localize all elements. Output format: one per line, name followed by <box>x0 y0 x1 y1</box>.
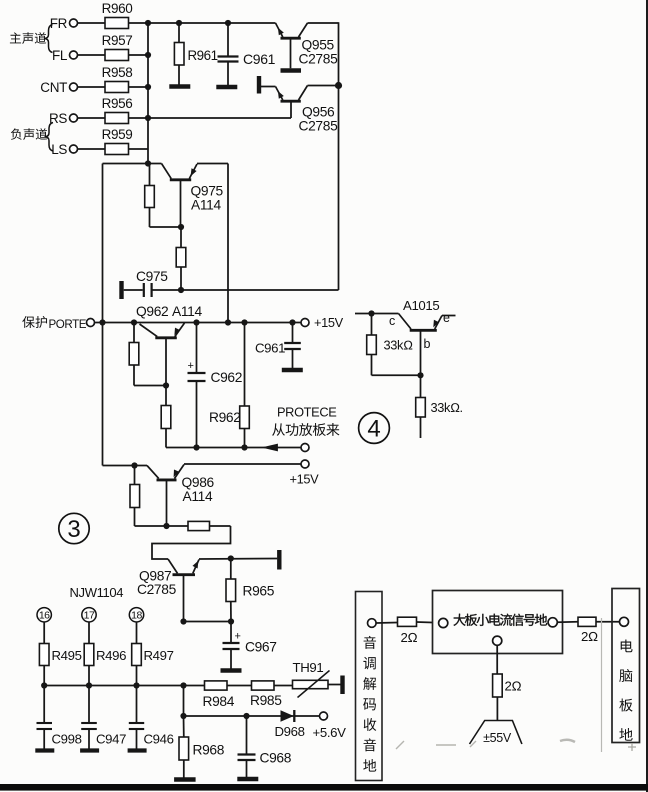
wire bottom bus <box>44 685 204 687</box>
thermistor TH91 <box>293 660 330 698</box>
svg-text:R968: R968 <box>193 743 225 758</box>
resistor R957 <box>102 33 133 61</box>
node Q962 base <box>163 382 169 388</box>
label negative channel 负声道 <box>11 128 47 140</box>
scan smudge marks <box>396 618 636 752</box>
wire Q987base down <box>183 686 185 717</box>
svg-text:PORTE: PORTE <box>49 318 87 331</box>
label A1015 <box>403 298 439 313</box>
svg-text:±55V: ±55V <box>483 731 512 745</box>
label 电脑板地 <box>619 640 632 741</box>
transistor Q987 <box>137 559 199 597</box>
svg-text:2Ω: 2Ω <box>401 630 418 645</box>
svg-text:33kΩ.: 33kΩ. <box>431 400 463 415</box>
node R496 bottom <box>86 682 92 688</box>
node CNT-bus <box>145 84 151 90</box>
emitter stub bar Q987 <box>277 550 281 570</box>
top rail wire <box>148 22 339 24</box>
svg-text:D968: D968 <box>275 724 305 739</box>
terminal +15V <box>301 315 344 330</box>
terminal +15V lower <box>290 460 320 487</box>
svg-text:Q956: Q956 <box>302 105 335 120</box>
svg-text:Q962: Q962 <box>136 304 168 319</box>
ground R968 <box>174 777 196 781</box>
node Q987 base lower <box>180 618 186 624</box>
node left rail <box>99 319 105 325</box>
svg-text:R958: R958 <box>102 65 133 80</box>
wire Q986 base lead <box>166 480 168 526</box>
circled 4 <box>359 413 390 444</box>
node R962 top <box>241 319 247 325</box>
svg-text:R497: R497 <box>144 648 174 663</box>
box tone-decoder ground <box>356 592 383 781</box>
ground R961 <box>169 84 190 88</box>
svg-text:R495: R495 <box>52 648 82 663</box>
svg-text:16: 16 <box>39 610 50 622</box>
svg-text:2Ω: 2Ω <box>505 679 522 694</box>
node Q975 base <box>178 224 184 230</box>
svg-text:A114: A114 <box>172 304 202 319</box>
input terminal LS <box>51 142 105 157</box>
capacitor C968 <box>238 716 292 777</box>
resistor 33k lower <box>416 375 463 438</box>
svg-text:b: b <box>424 337 431 351</box>
terminal PORTE <box>87 319 95 327</box>
node R962 bottom <box>241 444 247 450</box>
wire base to C967 <box>184 621 232 623</box>
svg-text:C2785: C2785 <box>299 52 339 67</box>
svg-text:C967: C967 <box>245 640 277 655</box>
resistor R496 <box>84 622 126 686</box>
svg-text:NJW1104: NJW1104 <box>70 585 124 600</box>
svg-text:+: + <box>234 631 240 643</box>
wire +15V rail <box>95 322 302 324</box>
page bottom bar <box>0 784 648 791</box>
node Q956 collector <box>335 82 342 89</box>
label 音调解码收音地 <box>363 636 376 772</box>
wire PROTECE row <box>166 447 301 449</box>
wire FR to bus <box>129 22 149 24</box>
label 大板小电流信号地 <box>453 614 547 626</box>
left rail wire upper <box>102 164 104 323</box>
wire R985-TH91 <box>274 685 293 687</box>
svg-text:C975: C975 <box>136 269 168 284</box>
node C961 lower top <box>289 319 295 325</box>
wire C975 to right rail <box>181 289 339 291</box>
wire A1015 stub <box>355 313 399 315</box>
node bus-Q987base <box>180 682 186 688</box>
transistor Q956 <box>261 86 339 134</box>
input bus wire <box>147 23 149 164</box>
box main board signal ground <box>433 591 563 654</box>
wire A1015 base lead <box>420 330 422 375</box>
label NJW1104 <box>70 585 124 600</box>
svg-text:A114: A114 <box>183 489 213 504</box>
resistor Q986 left <box>130 466 167 527</box>
node FR-bus <box>145 20 151 26</box>
svg-text:C961: C961 <box>243 51 276 67</box>
svg-text:C2785: C2785 <box>299 119 339 134</box>
node R497 bottom <box>133 682 139 688</box>
wire TH91 to stub <box>328 684 341 686</box>
svg-text:A114: A114 <box>191 198 221 213</box>
svg-text:R961: R961 <box>188 48 218 63</box>
node C962 bottom <box>193 444 199 450</box>
resistor R985 <box>250 681 282 708</box>
capacitor C962 <box>187 323 242 448</box>
resistor Q975 lower <box>176 227 186 290</box>
capacitor C998 <box>37 686 82 749</box>
wire RS row to Q956 base <box>148 117 291 119</box>
svg-text:Q955: Q955 <box>302 38 335 53</box>
svg-text:R957: R957 <box>102 33 133 48</box>
svg-text:R962: R962 <box>209 410 241 425</box>
wire LS to bus <box>129 148 149 150</box>
ground C961 lower <box>282 368 303 372</box>
resistor R965 <box>226 559 275 622</box>
pin 18 <box>129 608 143 622</box>
wire D968 row <box>184 715 320 717</box>
svg-text:A1015: A1015 <box>403 298 439 313</box>
node block right <box>225 319 231 325</box>
wire FL to bus <box>129 54 149 56</box>
capacitor C961 top <box>218 20 276 85</box>
pin 16 <box>37 608 51 622</box>
svg-text:C998: C998 <box>52 732 82 747</box>
resistor 2ohm bottom <box>493 645 522 720</box>
svg-text:+15V: +15V <box>314 315 344 330</box>
input terminal FL <box>52 48 105 63</box>
svg-text:TH91: TH91 <box>293 660 324 675</box>
resistor R495 <box>39 622 81 686</box>
diode D968 <box>275 710 305 739</box>
wire Q975 base lead <box>180 180 182 227</box>
svg-text:2Ω: 2Ω <box>581 629 598 644</box>
transistor Q962 <box>136 304 202 386</box>
ground C947 <box>80 748 99 752</box>
resistor Q962 lower <box>161 386 171 448</box>
resistor R958 <box>102 65 133 93</box>
svg-text:LS: LS <box>51 142 67 157</box>
node A1015 base <box>417 372 423 378</box>
svg-text:+: + <box>187 360 193 372</box>
node C968 top <box>243 713 249 719</box>
page right border <box>646 0 648 792</box>
right rail wire <box>338 22 340 290</box>
wire zigzag to Q987 <box>152 526 231 559</box>
node FL-bus <box>145 52 151 58</box>
ground C961 top <box>216 85 237 89</box>
ground C968 <box>237 777 258 781</box>
svg-text:C946: C946 <box>144 732 174 747</box>
input terminal FR <box>50 16 105 31</box>
brace main channel <box>44 25 53 53</box>
svg-text:+15V: +15V <box>290 472 320 487</box>
chassis symbol ±55V <box>470 721 522 746</box>
svg-text:C968: C968 <box>260 751 292 766</box>
terminal PROTECE <box>301 444 309 452</box>
wire Q975 top <box>103 163 229 165</box>
node R968 top <box>180 713 186 719</box>
resistor 2ohm left <box>376 617 432 645</box>
svg-text:FL: FL <box>52 48 68 63</box>
wire RS to bus <box>129 117 149 119</box>
node C975 <box>178 287 184 293</box>
svg-text:R985: R985 <box>250 693 282 708</box>
svg-text:33kΩ: 33kΩ <box>384 338 414 353</box>
ground C946 <box>128 748 147 752</box>
node C967 top <box>228 618 234 624</box>
svg-text:CNT: CNT <box>40 80 67 95</box>
node RS-bus <box>145 115 151 121</box>
svg-text:18: 18 <box>131 610 142 622</box>
svg-text:C961: C961 <box>255 341 285 356</box>
base stub bar Q955 <box>281 68 302 73</box>
resistor R961 <box>174 20 217 85</box>
svg-text:c: c <box>389 314 395 328</box>
svg-text:+5.6V: +5.6V <box>313 725 347 740</box>
node bus-Q975 <box>145 160 151 166</box>
svg-text:R956: R956 <box>102 96 133 111</box>
transistor Q955 <box>276 23 339 68</box>
svg-text:C2785: C2785 <box>137 582 177 597</box>
svg-text:17: 17 <box>84 610 95 622</box>
transistor Q986 <box>135 465 215 505</box>
svg-text:R959: R959 <box>102 127 133 142</box>
capacitor C967 <box>223 622 277 669</box>
stub bar TH91 <box>340 676 344 695</box>
resistor R968 <box>179 716 225 778</box>
capacitor C961 lower <box>255 323 301 369</box>
node Q986 base <box>163 523 169 529</box>
wire Q987 base lead <box>183 575 185 622</box>
node Q962 emitter <box>131 319 137 325</box>
node R495 bottom <box>41 682 47 688</box>
circled 3 <box>59 513 89 543</box>
arrow PROTECE <box>261 444 278 452</box>
ground C998 <box>35 748 54 752</box>
svg-text:e: e <box>443 311 450 325</box>
transistor A1015 <box>389 311 456 351</box>
svg-text:R496: R496 <box>96 648 126 663</box>
wire R984-R985 <box>227 685 252 687</box>
box computer board ground <box>612 589 640 743</box>
node 33k top <box>368 310 374 316</box>
svg-text:R984: R984 <box>203 694 235 709</box>
emitter stub bar Q956 <box>257 76 261 94</box>
svg-text:R960: R960 <box>102 1 133 16</box>
terminal +5.6V <box>313 712 347 740</box>
svg-text:4: 4 <box>367 416 380 443</box>
svg-text:C962: C962 <box>211 370 243 385</box>
resistor Q986 output <box>167 521 231 530</box>
capacitor C946 <box>129 686 174 749</box>
node Q986 emitter <box>131 462 137 468</box>
label 从功放板来 <box>272 423 339 436</box>
resistor R984 <box>203 681 235 709</box>
resistor R962 <box>209 323 249 448</box>
transistor Q975 <box>162 164 224 213</box>
resistor 2ohm right <box>557 617 619 644</box>
svg-text:FR: FR <box>50 16 68 31</box>
svg-text:R965: R965 <box>243 584 275 599</box>
resistor R497 <box>132 622 174 686</box>
wire Q975 block right side <box>227 164 229 323</box>
pin 17 <box>82 608 96 622</box>
wire +15V row lower <box>184 463 301 465</box>
resistor R959 <box>102 127 133 155</box>
capacitor C975 <box>122 269 182 299</box>
svg-text:Q975: Q975 <box>191 184 224 199</box>
left rail wire lower <box>103 323 135 466</box>
svg-text:C947: C947 <box>96 732 126 747</box>
node C962 top <box>193 319 199 325</box>
brace negative channel <box>45 123 54 152</box>
svg-text:PROTECE: PROTECE <box>277 405 336 420</box>
wire CNT to bus <box>129 86 149 88</box>
label 保护 PORTE <box>22 316 86 331</box>
input terminal RS <box>49 111 105 126</box>
node R965 top <box>228 555 234 561</box>
label main channel 主声道 <box>10 32 46 44</box>
ground C967 <box>221 668 242 672</box>
capacitor C947 <box>81 686 126 749</box>
wire Q987 emitter row <box>199 558 277 561</box>
input terminal CNT <box>40 80 105 95</box>
resistor Q975 bias <box>145 164 181 228</box>
resistor Q962 left <box>129 323 166 386</box>
label PROTECE <box>277 405 336 420</box>
resistor R960 <box>102 1 133 29</box>
resistor 33k upper <box>367 314 421 376</box>
svg-text:3: 3 <box>67 516 80 543</box>
svg-text:Q986: Q986 <box>182 475 215 490</box>
resistor R956 <box>102 96 133 124</box>
